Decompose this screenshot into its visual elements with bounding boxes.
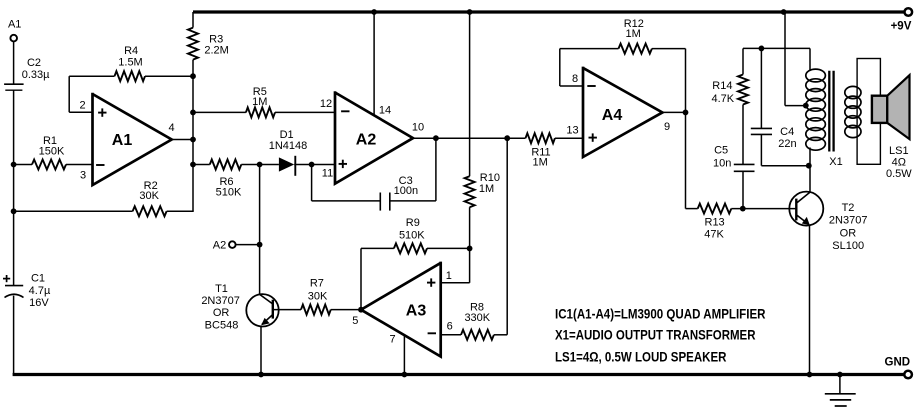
svg-text:GND: GND xyxy=(885,357,911,369)
svg-text:R7: R7 xyxy=(310,278,324,290)
svg-text:0.5W: 0.5W xyxy=(886,168,912,180)
svg-text:C5: C5 xyxy=(714,144,728,156)
svg-text:X1: X1 xyxy=(829,156,842,168)
svg-text:R4: R4 xyxy=(124,45,138,57)
svg-text:R9: R9 xyxy=(406,217,420,229)
svg-text:C2: C2 xyxy=(27,57,41,69)
svg-text:330K: 330K xyxy=(464,312,490,324)
svg-text:100n: 100n xyxy=(394,185,418,197)
svg-text:2.2M: 2.2M xyxy=(204,45,228,57)
svg-text:11: 11 xyxy=(322,168,333,180)
svg-text:10n: 10n xyxy=(713,157,731,169)
svg-text:7: 7 xyxy=(389,333,395,345)
svg-text:22n: 22n xyxy=(778,138,796,150)
svg-text:A4: A4 xyxy=(602,107,623,124)
svg-text:13: 13 xyxy=(566,124,578,136)
svg-text:2N3707: 2N3707 xyxy=(829,215,868,227)
svg-text:1: 1 xyxy=(446,270,452,282)
svg-text:510K: 510K xyxy=(399,229,425,241)
svg-text:IC1(A1-A4)=LM3900 QUAD AMPLIFI: IC1(A1-A4)=LM3900 QUAD AMPLIFIER xyxy=(555,306,766,322)
svg-text:12: 12 xyxy=(320,98,332,110)
svg-text:0.33µ: 0.33µ xyxy=(22,69,50,81)
svg-text:OR: OR xyxy=(840,227,857,239)
svg-text:A1: A1 xyxy=(112,132,133,149)
svg-text:A3: A3 xyxy=(406,302,427,319)
svg-text:510K: 510K xyxy=(216,186,242,198)
svg-text:OR: OR xyxy=(213,307,230,319)
svg-text:10: 10 xyxy=(412,121,424,133)
svg-text:X1=AUDIO OUTPUT TRANSFORMER: X1=AUDIO OUTPUT TRANSFORMER xyxy=(555,327,756,343)
svg-text:1M: 1M xyxy=(479,183,494,195)
svg-text:9: 9 xyxy=(664,121,670,133)
svg-text:A2: A2 xyxy=(213,239,226,251)
svg-text:16V: 16V xyxy=(29,297,49,309)
svg-text:LS1: LS1 xyxy=(889,145,909,157)
svg-text:A2: A2 xyxy=(356,131,377,148)
svg-text:47K: 47K xyxy=(704,229,724,241)
svg-text:LS1=4Ω, 0.5W LOUD SPEAKER: LS1=4Ω, 0.5W LOUD SPEAKER xyxy=(555,348,727,364)
svg-text:3: 3 xyxy=(80,169,86,181)
svg-text:T2: T2 xyxy=(842,202,855,214)
svg-text:+9V: +9V xyxy=(891,20,912,32)
svg-text:1M: 1M xyxy=(252,96,267,108)
svg-text:30K: 30K xyxy=(308,290,328,302)
svg-text:150K: 150K xyxy=(39,145,65,157)
svg-text:6: 6 xyxy=(447,320,453,332)
svg-text:4.7µ: 4.7µ xyxy=(29,285,51,297)
svg-text:R13: R13 xyxy=(705,216,725,228)
svg-text:4: 4 xyxy=(168,122,174,134)
svg-text:30K: 30K xyxy=(139,190,159,202)
svg-text:T1: T1 xyxy=(215,283,228,295)
svg-text:2: 2 xyxy=(79,99,85,111)
svg-text:1.5M: 1.5M xyxy=(118,57,142,69)
svg-text:8: 8 xyxy=(572,73,578,85)
svg-text:4Ω: 4Ω xyxy=(892,156,906,168)
svg-text:SL100: SL100 xyxy=(832,240,864,252)
svg-text:14: 14 xyxy=(379,104,391,116)
svg-text:C1: C1 xyxy=(31,273,45,285)
svg-text:A1: A1 xyxy=(8,18,21,30)
svg-text:BC548: BC548 xyxy=(205,319,239,331)
svg-text:5: 5 xyxy=(352,315,358,327)
svg-text:R14: R14 xyxy=(712,80,732,92)
svg-text:C4: C4 xyxy=(780,126,794,138)
svg-text:1M: 1M xyxy=(625,28,640,40)
svg-text:2N3707: 2N3707 xyxy=(201,295,240,307)
svg-text:1M: 1M xyxy=(533,156,548,168)
svg-text:1N4148: 1N4148 xyxy=(269,140,308,152)
svg-text:4.7K: 4.7K xyxy=(711,93,734,105)
